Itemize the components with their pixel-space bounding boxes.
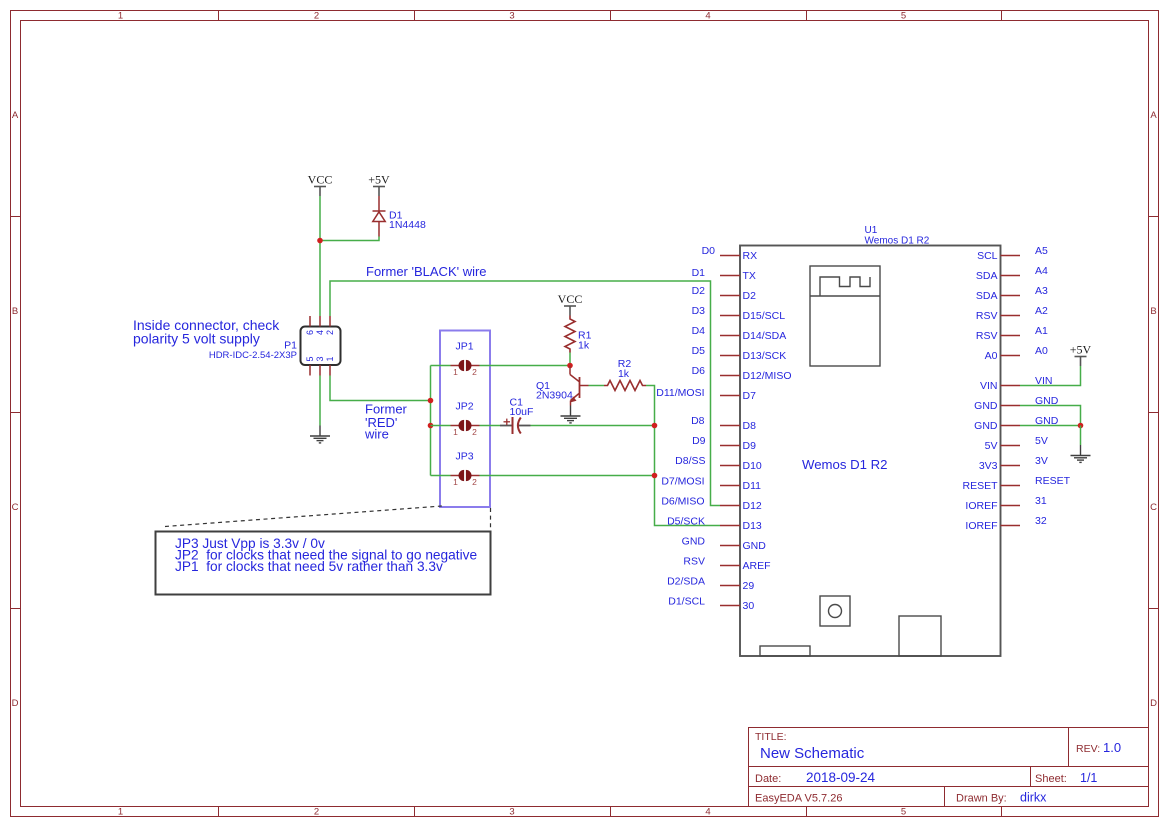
callout dashed line: [165, 506, 442, 527]
power flag VCC (top-left): [314, 187, 326, 197]
wire R1 to junction: [569, 353, 571, 366]
svg-text:VCC: VCC: [558, 292, 583, 306]
svg-text:A5: A5: [1035, 245, 1048, 257]
ground at Q1 emitter: [561, 406, 581, 423]
svg-text:5: 5: [901, 11, 906, 22]
svg-text:29: 29: [743, 580, 755, 592]
svg-text:D9: D9: [743, 440, 757, 452]
svg-text:4: 4: [705, 807, 710, 818]
callout dashed vertical: [490, 508, 492, 528]
svg-text:3V3: 3V3: [979, 460, 998, 472]
wire JP2 to C1: [480, 425, 501, 427]
svg-text:A2: A2: [1035, 305, 1048, 317]
svg-text:A3: A3: [1035, 285, 1048, 297]
svg-text:+5V: +5V: [1070, 343, 1092, 357]
svg-text:A0: A0: [985, 350, 998, 362]
wire net D1 (former BLACK) P1 pin2 to D12: [330, 281, 720, 506]
transistor Q1 2N3904: [570, 366, 589, 406]
svg-text:SDA: SDA: [976, 270, 998, 282]
svg-text:D2: D2: [743, 290, 757, 302]
JP group box: [440, 331, 490, 508]
wire diode bottom to VCC line: [320, 237, 379, 241]
svg-text:D3: D3: [692, 305, 706, 317]
svg-text:Former 'BLACK' wire: Former 'BLACK' wire: [366, 264, 487, 279]
svg-text:1k: 1k: [578, 340, 590, 352]
svg-text:IOREF: IOREF: [965, 500, 997, 512]
svg-text:VCC: VCC: [308, 173, 333, 187]
svg-text:1N4448: 1N4448: [389, 219, 426, 231]
svg-text:IOREF: IOREF: [965, 520, 997, 532]
svg-text:4: 4: [315, 330, 325, 335]
svg-text:32: 32: [1035, 515, 1047, 527]
svg-text:RESET: RESET: [962, 480, 998, 492]
svg-text:D10: D10: [743, 460, 762, 472]
svg-text:HDR-IDC-2.54-2X3P: HDR-IDC-2.54-2X3P: [209, 350, 297, 361]
junction GND: [1078, 423, 1084, 429]
wire JP left vertical: [430, 366, 432, 476]
svg-text:A0: A0: [1035, 345, 1048, 357]
svg-text:D0: D0: [702, 245, 716, 257]
svg-text:C: C: [1150, 502, 1157, 513]
junction JP3 row: [652, 473, 658, 479]
U1 left pins: [720, 256, 740, 606]
svg-text:2N3904: 2N3904: [536, 390, 573, 402]
svg-text:GND: GND: [974, 400, 998, 412]
svg-text:U1: U1: [865, 225, 878, 236]
svg-text:3: 3: [315, 356, 325, 361]
resistor R2 1k: [604, 381, 646, 391]
svg-text:1.0: 1.0: [1103, 740, 1121, 755]
antenna module drawing: [810, 266, 880, 366]
svg-text:D15/SCL: D15/SCL: [743, 310, 786, 322]
svg-text:D11: D11: [743, 480, 762, 492]
svg-text:4: 4: [705, 11, 710, 22]
wire C1 to right vertical: [531, 425, 655, 427]
svg-text:1: 1: [453, 427, 458, 437]
svg-text:10uF: 10uF: [510, 406, 534, 418]
svg-text:D1: D1: [692, 267, 706, 279]
svg-text:Wemos D1 R2: Wemos D1 R2: [865, 236, 930, 247]
wire GND2: [1020, 425, 1081, 427]
right net labels: [1035, 245, 1071, 527]
svg-text:A: A: [12, 110, 19, 121]
svg-text:D8: D8: [743, 420, 757, 432]
svg-text:D: D: [1150, 698, 1157, 709]
svg-text:RX: RX: [743, 250, 758, 262]
svg-text:GND: GND: [974, 420, 998, 432]
resistor R1 1k: [565, 316, 575, 353]
wire P1 pin3 to ground: [319, 376, 321, 426]
svg-text:2: 2: [472, 477, 477, 487]
svg-text:3V: 3V: [1035, 455, 1048, 467]
bottom-left pad rect: [760, 646, 810, 656]
IC U1 Wemos D1 R2: [740, 246, 1001, 657]
svg-text:RESET: RESET: [1035, 475, 1071, 487]
svg-text:1: 1: [453, 367, 458, 377]
jumper JP1: [451, 341, 480, 378]
junction RED wire join: [428, 398, 434, 404]
svg-text:D7: D7: [743, 390, 757, 402]
svg-text:JP3: JP3: [455, 451, 473, 463]
svg-text:RSV: RSV: [976, 310, 998, 322]
svg-text:Date:: Date:: [755, 773, 781, 785]
svg-text:2: 2: [314, 11, 319, 22]
jumper JP3: [451, 451, 480, 488]
svg-text:D4: D4: [692, 325, 706, 337]
svg-text:EasyEDA V5.7.26: EasyEDA V5.7.26: [755, 793, 842, 805]
svg-text:1: 1: [453, 477, 458, 487]
svg-text:D5/SCK: D5/SCK: [667, 516, 705, 528]
junction R1/JP1/Q1: [567, 363, 573, 369]
wire P1 pin1 (former RED) to JP column: [330, 376, 431, 401]
svg-text:AREF: AREF: [743, 560, 771, 572]
svg-text:5: 5: [901, 807, 906, 818]
wire JP1 to R1 base junction: [480, 365, 571, 367]
wire JP1 row left: [431, 365, 451, 367]
svg-text:D12/MISO: D12/MISO: [743, 370, 792, 382]
svg-text:D9: D9: [692, 435, 706, 447]
svg-text:2: 2: [325, 330, 335, 335]
svg-text:D13/SCK: D13/SCK: [743, 350, 787, 362]
svg-text:D2/SDA: D2/SDA: [667, 576, 705, 588]
svg-text:+5V: +5V: [368, 173, 390, 187]
svg-text:D1/SCL: D1/SCL: [668, 596, 705, 608]
wire R2 to right vertical / D13: [646, 386, 720, 526]
svg-text:JP2: JP2: [455, 401, 473, 413]
svg-text:SCL: SCL: [977, 250, 998, 262]
power flag +5V (top): [373, 187, 385, 197]
svg-text:B: B: [12, 306, 18, 317]
junction JP2 row join: [428, 423, 434, 429]
svg-text:VIN: VIN: [980, 380, 998, 392]
svg-text:2: 2: [314, 807, 319, 818]
svg-text:Wemos D1 R2: Wemos D1 R2: [802, 457, 888, 472]
wire JP3 to right vertical: [480, 475, 655, 477]
svg-text:1k: 1k: [618, 368, 630, 380]
svg-text:1/1: 1/1: [1080, 771, 1097, 785]
svg-text:A4: A4: [1035, 265, 1048, 277]
junction at VCC/diode: [317, 238, 323, 244]
svg-text:Sheet:: Sheet:: [1035, 773, 1067, 785]
svg-text:1: 1: [118, 11, 123, 22]
svg-text:2: 2: [472, 367, 477, 377]
svg-text:dirkx: dirkx: [1020, 791, 1047, 805]
connector P1 HDR-IDC-2.54-2X3P: [209, 316, 341, 376]
ground right: [1071, 445, 1091, 462]
svg-text:New Schematic: New Schematic: [760, 745, 865, 762]
svg-text:6: 6: [305, 330, 315, 335]
svg-text:2: 2: [472, 427, 477, 437]
small circle feature: [820, 596, 850, 626]
svg-text:D14/SDA: D14/SDA: [743, 330, 787, 342]
svg-text:D5: D5: [692, 345, 706, 357]
svg-text:B: B: [1150, 306, 1156, 317]
svg-text:Drawn By:: Drawn By:: [956, 793, 1007, 805]
capacitor C1 10uF: [500, 397, 533, 435]
wire GND down: [1080, 426, 1082, 446]
diode D1 1N4448: [373, 196, 386, 237]
svg-text:30: 30: [743, 600, 755, 612]
svg-text:5V: 5V: [985, 440, 998, 452]
svg-text:31: 31: [1035, 495, 1047, 507]
svg-text:D2: D2: [692, 285, 706, 297]
left net labels: [661, 245, 715, 608]
svg-text:wire: wire: [364, 427, 389, 442]
svg-text:1: 1: [325, 356, 335, 361]
svg-text:D8/SS: D8/SS: [675, 455, 705, 467]
svg-text:1: 1: [118, 807, 123, 818]
svg-text:JP1 for clocks that need 5v r: JP1 for clocks that need 5v rather than …: [175, 559, 443, 574]
svg-text:A: A: [1150, 110, 1157, 121]
svg-text:D8: D8: [691, 415, 705, 427]
svg-text:TITLE:: TITLE:: [755, 731, 787, 743]
junction C1 row: [652, 423, 658, 429]
jumper JP2: [451, 401, 480, 438]
svg-text:D13: D13: [743, 520, 762, 532]
svg-text:3: 3: [509, 807, 514, 818]
svg-text:D6: D6: [692, 365, 706, 377]
svg-text:RSV: RSV: [683, 556, 705, 568]
svg-text:D7/MOSI: D7/MOSI: [661, 476, 704, 488]
svg-text:5: 5: [305, 356, 315, 361]
note box: [156, 532, 491, 595]
bottom-right pad rect: [899, 616, 941, 656]
wire GND1: [1020, 406, 1081, 426]
svg-text:GND: GND: [682, 536, 706, 548]
svg-text:D: D: [12, 698, 19, 709]
wire JP3 row left: [431, 475, 451, 477]
U1 right pins: [1001, 256, 1021, 526]
svg-text:D6/MISO: D6/MISO: [661, 496, 704, 508]
svg-text:C: C: [12, 502, 19, 513]
svg-text:GND: GND: [743, 540, 767, 552]
svg-text:A1: A1: [1035, 325, 1048, 337]
title block: [749, 728, 1149, 807]
svg-text:2018-09-24: 2018-09-24: [806, 770, 876, 785]
ground at P1 pin3: [310, 426, 330, 443]
svg-text:D11/MOSI: D11/MOSI: [656, 387, 704, 399]
svg-text:REV:: REV:: [1076, 743, 1100, 755]
svg-text:D12: D12: [743, 500, 762, 512]
power flag VCC (above R1): [564, 306, 576, 316]
svg-text:3: 3: [509, 11, 514, 22]
svg-text:5V: 5V: [1035, 435, 1048, 447]
wire Q1 base to R2: [589, 385, 605, 387]
wire +5V to VIN: [1020, 366, 1081, 386]
wire VCC vertical to P1 pin4: [319, 196, 321, 316]
wire JP2 row left: [431, 425, 451, 427]
power flag +5V (right): [1075, 357, 1087, 367]
svg-text:RSV: RSV: [976, 330, 998, 342]
svg-text:polarity 5 volt supply: polarity 5 volt supply: [133, 331, 260, 347]
svg-text:TX: TX: [743, 270, 756, 282]
svg-text:SDA: SDA: [976, 290, 998, 302]
svg-text:JP1: JP1: [455, 341, 473, 353]
